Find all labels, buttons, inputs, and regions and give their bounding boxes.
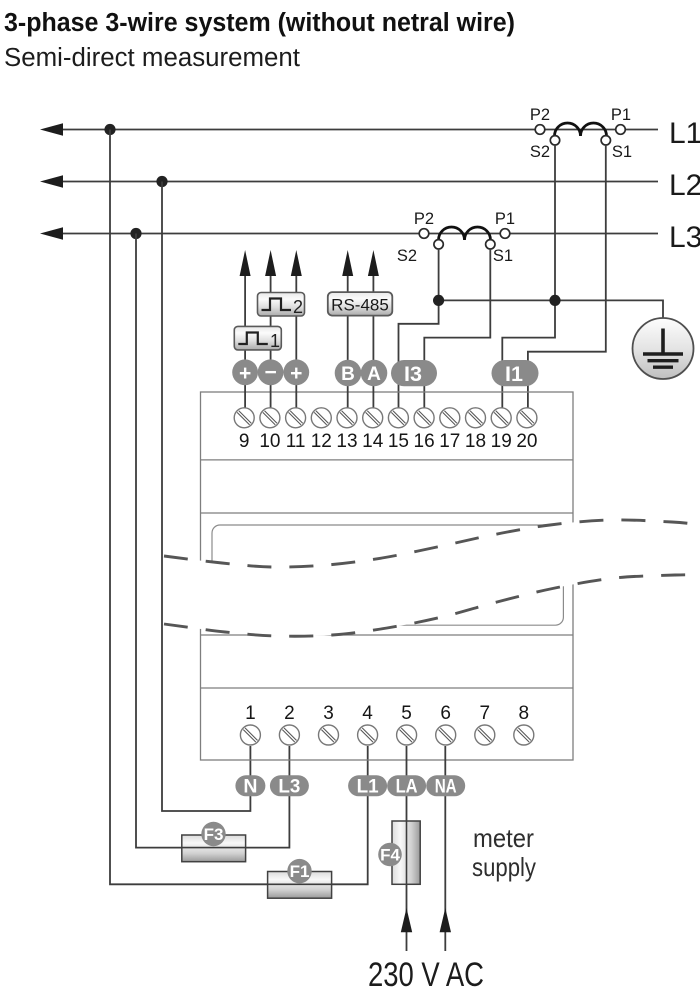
wire L2 voltage tap — [162, 182, 250, 812]
terminal label A (14) — [361, 360, 388, 387]
svg-text:S2: S2 — [397, 247, 417, 265]
svg-text:5: 5 — [401, 703, 412, 724]
svg-text:−: − — [264, 361, 276, 384]
svg-text:16: 16 — [414, 431, 435, 452]
svg-text:P1: P1 — [611, 106, 631, 124]
svg-text:NA: NA — [435, 776, 457, 798]
arrow output 13 — [342, 250, 353, 276]
terminal screw 17 — [440, 408, 460, 428]
svg-text:2: 2 — [293, 297, 303, 317]
svg-text:F3: F3 — [204, 825, 224, 844]
svg-text:230 V AC: 230 V AC — [368, 956, 484, 992]
terminal screw 9 — [234, 408, 254, 428]
svg-text:S1: S1 — [612, 143, 632, 161]
pulse output box 2 — [258, 293, 305, 318]
terminal screw 16 — [414, 408, 434, 428]
svg-text:I1: I1 — [505, 362, 523, 386]
terminal label I1 (19-20) — [492, 360, 539, 386]
svg-text:11: 11 — [286, 431, 306, 452]
phase line L2 — [40, 175, 658, 188]
svg-text:L1: L1 — [669, 117, 700, 150]
svg-text:I3: I3 — [404, 362, 422, 386]
wire T1 S2 to terminal 19 — [502, 145, 555, 408]
fuse F4 — [378, 821, 420, 884]
svg-text:19: 19 — [491, 431, 512, 452]
wire meter supply NA — [444, 746, 446, 951]
wire T1 S1 to terminal 20 — [528, 145, 606, 408]
current transformer T3 on L3 — [419, 227, 510, 249]
terminal screw 7 — [475, 725, 495, 745]
svg-text:3-phase 3-wire system (without: 3-phase 3-wire system (without netral wi… — [4, 9, 515, 37]
terminal label + (11) — [283, 359, 309, 385]
svg-text:1: 1 — [245, 703, 256, 724]
pulse output box 1 — [234, 326, 281, 351]
arrow output 10 — [265, 250, 276, 276]
svg-text:P1: P1 — [495, 210, 515, 228]
node L1 junction — [104, 124, 115, 135]
wire terminal 10 pulse output — [270, 276, 272, 408]
svg-text:Semi-direct measurement: Semi-direct measurement — [4, 44, 300, 72]
svg-text:1: 1 — [270, 331, 280, 351]
svg-text:18: 18 — [465, 431, 486, 452]
wire L3 voltage tap — [136, 234, 182, 848]
svg-text:4: 4 — [362, 703, 373, 724]
arrow output 14 — [368, 250, 379, 276]
svg-text:12: 12 — [311, 431, 332, 452]
terminal screw 11 — [286, 408, 306, 428]
svg-text:9: 9 — [239, 431, 250, 452]
terminal screw 1 — [240, 725, 260, 745]
svg-text:L3: L3 — [278, 776, 300, 798]
terminal screw 5 — [397, 725, 417, 745]
svg-text:B: B — [341, 364, 355, 385]
svg-text:A: A — [367, 364, 381, 385]
current transformer T1 on L1 — [535, 123, 625, 145]
svg-text:14: 14 — [362, 431, 384, 452]
fuse F1 — [268, 859, 332, 898]
svg-text:6: 6 — [440, 703, 451, 724]
terminal screw 3 — [319, 725, 339, 745]
svg-text:L1: L1 — [357, 776, 379, 798]
meter body outline — [201, 392, 574, 760]
wire terminal 11 pulse output — [295, 276, 297, 408]
svg-text:17: 17 — [439, 431, 460, 452]
RS-485 box — [328, 292, 393, 316]
wire T3 S2 to terminal 15 — [399, 249, 439, 408]
node earth junction S2-T3 — [433, 295, 444, 306]
terminal label NA (6) — [426, 775, 465, 797]
svg-text:7: 7 — [480, 703, 491, 724]
svg-text:20: 20 — [516, 431, 537, 452]
break line upper — [164, 520, 700, 567]
svg-text:P2: P2 — [530, 106, 550, 124]
svg-text:2: 2 — [284, 703, 295, 724]
terminal screw 12 — [311, 408, 331, 428]
svg-text:L2: L2 — [669, 169, 700, 202]
terminal screw 6 — [436, 725, 456, 745]
terminal screw 18 — [466, 408, 486, 428]
wire terminal 13 RS-485 B — [347, 276, 349, 408]
break band — [164, 520, 700, 636]
arrow output 9 — [240, 250, 251, 276]
terminal screw 2 — [279, 725, 299, 745]
break line lower — [164, 575, 700, 636]
wire meter supply LA — [406, 746, 408, 951]
arrow supply LA — [401, 908, 412, 932]
svg-text:+: + — [239, 362, 251, 385]
svg-text:supply: supply — [472, 852, 536, 882]
svg-text:15: 15 — [388, 431, 409, 452]
fuse F3 — [182, 822, 246, 862]
node L3 junction — [130, 228, 141, 239]
terminal label LA (5) — [387, 775, 426, 797]
phase line L1 — [40, 123, 658, 136]
earth symbol — [633, 318, 694, 379]
terminal screw 10 — [260, 408, 280, 428]
wire terminal 9 pulse output — [244, 276, 246, 408]
terminal screw 15 — [388, 408, 408, 428]
wire T3 S1 to terminal 16 — [424, 249, 490, 408]
wire F3 to terminal 2 — [246, 746, 290, 848]
svg-text:L3: L3 — [669, 221, 700, 254]
arrow output 11 — [291, 250, 302, 276]
svg-text:F1: F1 — [290, 862, 310, 881]
wire earth bus — [439, 300, 663, 317]
svg-text:N: N — [243, 776, 257, 798]
svg-text:10: 10 — [259, 431, 280, 452]
terminal label + (9) — [232, 359, 258, 385]
svg-text:LA: LA — [396, 776, 418, 798]
svg-text:P2: P2 — [414, 210, 434, 228]
terminal label B (13) — [335, 360, 362, 387]
svg-text:meter: meter — [473, 823, 534, 853]
terminal screw 4 — [358, 725, 378, 745]
phase line L3 — [40, 227, 658, 240]
svg-text:S1: S1 — [493, 247, 513, 265]
terminal screw 19 — [491, 408, 511, 428]
arrow supply NA — [440, 908, 451, 932]
svg-text:F4: F4 — [380, 845, 400, 864]
wire F1 to terminal 4 — [332, 746, 368, 884]
terminal screw 20 — [517, 408, 537, 428]
svg-text:RS-485: RS-485 — [331, 296, 389, 315]
node earth junction S2-T1 — [549, 295, 560, 306]
terminal screw 14 — [363, 408, 383, 428]
terminal label N (1) — [235, 775, 265, 797]
wire L1 voltage tap — [110, 130, 268, 885]
terminal screw 8 — [514, 725, 534, 745]
terminal label L1 (4) — [348, 775, 387, 797]
svg-text:3: 3 — [323, 703, 334, 724]
node L2 junction — [156, 176, 167, 187]
terminal label L3 (2) — [270, 775, 309, 797]
wire terminal 14 RS-485 A — [372, 276, 374, 408]
svg-text:13: 13 — [336, 431, 357, 452]
terminal screw 13 — [337, 408, 357, 428]
svg-text:+: + — [290, 362, 302, 385]
terminal label I3 (15-16) — [391, 360, 437, 386]
svg-text:S2: S2 — [530, 143, 550, 161]
terminal label - (10) — [258, 359, 284, 385]
svg-text:8: 8 — [519, 703, 530, 724]
